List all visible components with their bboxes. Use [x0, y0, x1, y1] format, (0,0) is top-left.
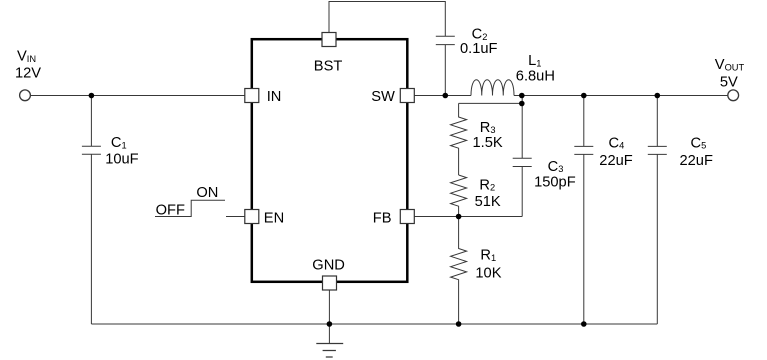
- wire bottom ground rail: [91, 323, 657, 325]
- svg-text:OFF: OFF: [156, 202, 185, 218]
- junction node C4 bottom: [581, 321, 587, 327]
- capacitor C3 plates: [513, 158, 532, 166]
- terminal VIN: [20, 90, 31, 101]
- capacitor C4 plates: [574, 146, 593, 154]
- svg-text:C5: C5: [691, 135, 707, 151]
- inductor L1: [471, 80, 514, 96]
- svg-text:5V: 5V: [720, 74, 738, 90]
- svg-text:FB: FB: [373, 211, 392, 227]
- svg-text:150pF: 150pF: [534, 175, 576, 191]
- pin IN: [245, 89, 259, 103]
- resistor R3: [451, 103, 467, 175]
- junction node FB divider: [456, 214, 462, 220]
- capacitor C2 plates: [436, 36, 455, 44]
- svg-text:12V: 12V: [15, 65, 41, 81]
- svg-text:0.1uF: 0.1uF: [460, 41, 498, 57]
- terminal VOUT: [728, 90, 739, 101]
- svg-text:1.5K: 1.5K: [473, 135, 503, 151]
- junction node GND rail: [327, 321, 333, 327]
- svg-text:6.8uH: 6.8uH: [516, 68, 555, 84]
- wire BST to C2 top: [329, 2, 445, 37]
- svg-text:BST: BST: [314, 59, 343, 75]
- wire GND pin to ground: [328, 290, 330, 344]
- wire EN stub: [226, 216, 246, 218]
- wire R3 top branch: [459, 96, 523, 159]
- junction node after L1: [519, 93, 525, 99]
- svg-text:C1: C1: [111, 135, 127, 151]
- resistor R1: [451, 217, 467, 325]
- wire SW pin to inductor: [414, 95, 471, 97]
- svg-text:ON: ON: [196, 185, 218, 201]
- wire C4 branch: [583, 96, 585, 325]
- wire input VIN to IN pin: [31, 95, 246, 97]
- on-off step waveform: [155, 200, 225, 216]
- junction node at C2/SW: [443, 93, 449, 99]
- svg-text:SW: SW: [371, 89, 395, 105]
- capacitor C1 plates: [82, 146, 101, 154]
- capacitor C5 plates: [648, 146, 667, 154]
- junction node C5 top: [655, 93, 661, 99]
- svg-text:10K: 10K: [475, 265, 501, 281]
- svg-text:22uF: 22uF: [599, 153, 632, 169]
- svg-text:L1: L1: [528, 53, 541, 69]
- svg-text:10uF: 10uF: [105, 151, 138, 167]
- svg-text:EN: EN: [264, 211, 284, 227]
- svg-text:22uF: 22uF: [680, 153, 713, 169]
- wire C1 branch down: [90, 96, 92, 325]
- wire C2 bottom to SW node: [444, 45, 446, 96]
- svg-text:C4: C4: [609, 135, 625, 151]
- svg-text:IN: IN: [267, 89, 282, 105]
- pin EN: [245, 210, 259, 224]
- junction node at C1: [89, 93, 95, 99]
- svg-text:R1: R1: [480, 248, 496, 264]
- resistor R2: [451, 175, 467, 217]
- pin BST: [322, 33, 336, 47]
- IC body U1: [252, 39, 407, 282]
- wire FB pin to C3: [414, 216, 522, 218]
- svg-text:GND: GND: [312, 258, 345, 274]
- svg-text:VIN: VIN: [17, 49, 36, 65]
- pin GND: [323, 276, 337, 290]
- svg-text:R2: R2: [479, 177, 495, 193]
- wire C3 bottom lead: [521, 167, 523, 217]
- ground symbol: [316, 344, 343, 358]
- junction node C4 top: [581, 93, 587, 99]
- junction node R3 branch: [519, 101, 525, 107]
- wire inductor to VOUT terminal: [514, 95, 728, 97]
- wire C5 branch: [656, 96, 658, 325]
- pin FB: [400, 210, 414, 224]
- svg-text:51K: 51K: [475, 194, 501, 210]
- pin SW: [400, 89, 414, 103]
- svg-text:VOUT: VOUT: [715, 57, 745, 73]
- junction node R1 bottom: [456, 321, 462, 327]
- svg-text:R3: R3: [480, 120, 496, 136]
- svg-text:C3: C3: [548, 159, 564, 175]
